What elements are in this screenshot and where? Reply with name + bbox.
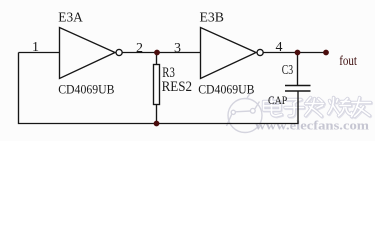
svg-text:E3B: E3B <box>200 10 225 25</box>
svg-text:CD4069UB: CD4069UB <box>198 83 254 97</box>
svg-text:fout: fout <box>339 53 357 68</box>
svg-text:3: 3 <box>174 41 181 56</box>
svg-text:4: 4 <box>276 40 283 55</box>
svg-text:RES2: RES2 <box>162 79 193 95</box>
svg-text:CD4069UB: CD4069UB <box>58 83 114 97</box>
svg-text:1: 1 <box>32 40 39 55</box>
svg-text:2: 2 <box>136 41 143 56</box>
svg-text:E3A: E3A <box>58 10 83 25</box>
svg-text:www.elecfans.com: www.elecfans.com <box>255 118 369 133</box>
svg-text:CAP: CAP <box>268 95 287 107</box>
svg-text:C3: C3 <box>282 63 293 78</box>
